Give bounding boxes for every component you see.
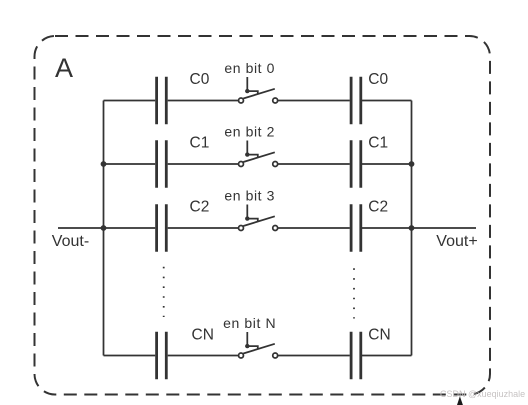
wire Vout+ stub bbox=[412, 227, 477, 229]
switch en bit 0 bbox=[239, 77, 278, 103]
wire row1 switch to C0 right bbox=[278, 100, 350, 102]
wire left rail bbox=[103, 101, 105, 356]
capacitor C2 (left) bbox=[157, 204, 167, 251]
wire row2 C1 to right rail bbox=[362, 163, 412, 165]
dotted continuation left bbox=[163, 267, 165, 317]
svg-text:Vout-: Vout- bbox=[52, 233, 89, 250]
wire row4 switch to CN right bbox=[278, 355, 350, 357]
svg-text:C1: C1 bbox=[368, 135, 388, 152]
wire row2 switch to C1 right bbox=[278, 163, 350, 165]
capacitor CN (right) bbox=[351, 332, 361, 379]
wire row3 C2 to right rail bbox=[362, 227, 412, 229]
capacitor C1 (right) bbox=[351, 140, 361, 187]
wire Vout- stub bbox=[58, 227, 104, 229]
svg-text:C2: C2 bbox=[368, 199, 388, 216]
svg-text:en bit 3: en bit 3 bbox=[224, 188, 275, 204]
pointer triangle bbox=[457, 396, 463, 405]
svg-text:A: A bbox=[55, 53, 73, 83]
node junction right rail row3 bbox=[409, 225, 415, 231]
svg-text:CN: CN bbox=[368, 327, 390, 344]
enclosure dashed border A bbox=[35, 36, 491, 395]
svg-text:C0: C0 bbox=[190, 71, 210, 88]
svg-text:en bit 0: en bit 0 bbox=[224, 60, 275, 76]
wire row4 CN to switch bbox=[168, 355, 239, 357]
svg-text:CN: CN bbox=[192, 327, 214, 344]
switch en bit N bbox=[239, 332, 278, 358]
svg-text:C0: C0 bbox=[368, 71, 388, 88]
wire row2 C1 to switch bbox=[168, 163, 239, 165]
wire row3 C2 to switch bbox=[168, 227, 239, 229]
wire row1 rail to C0 left bbox=[104, 100, 156, 102]
node junction left rail row3 bbox=[101, 225, 107, 231]
wire row3 switch to C2 right bbox=[278, 227, 350, 229]
capacitor C1 (left) bbox=[157, 140, 167, 187]
capacitor C0 (left) bbox=[157, 77, 167, 124]
capacitor C0 (right) bbox=[351, 77, 361, 124]
svg-text:en bit 2: en bit 2 bbox=[224, 124, 275, 140]
svg-text:Vout+: Vout+ bbox=[436, 233, 477, 250]
node junction right rail row2 bbox=[409, 161, 415, 167]
capacitor C2 (right) bbox=[351, 204, 361, 251]
node junction left rail row2 bbox=[101, 161, 107, 167]
svg-text:C2: C2 bbox=[190, 199, 210, 216]
wire row4 rail to CN left bbox=[104, 355, 156, 357]
wire right rail bbox=[411, 101, 413, 356]
switch en bit 2 bbox=[239, 141, 278, 167]
switch en bit 3 bbox=[239, 205, 278, 231]
svg-text:en bit N: en bit N bbox=[223, 315, 276, 331]
wire row2 rail to C1 left bbox=[104, 163, 156, 165]
wire row1 C0 to switch bbox=[168, 100, 239, 102]
capacitor CN (left) bbox=[157, 332, 167, 379]
dotted continuation right bbox=[353, 268, 355, 318]
wire row1 C0 to right rail bbox=[362, 100, 412, 102]
svg-text:CSDN @xueqiuzhale: CSDN @xueqiuzhale bbox=[440, 389, 525, 399]
wire row3 rail to C2 left bbox=[104, 227, 156, 229]
svg-text:C1: C1 bbox=[190, 135, 210, 152]
wire row4 CN to right rail bbox=[362, 355, 412, 357]
